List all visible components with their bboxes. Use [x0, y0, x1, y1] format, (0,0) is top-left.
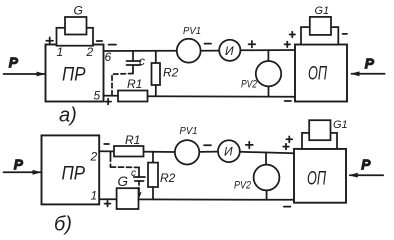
svg-text:б): б) — [54, 214, 72, 236]
generator G1 pedestal (circuit a) — [301, 27, 338, 44]
svg-text:G1: G1 — [333, 119, 348, 131]
svg-text:R1: R1 — [127, 77, 142, 91]
generator G box in series (circuit б) — [117, 174, 139, 209]
converter box ПР (circuit б) — [42, 135, 100, 204]
voltmeter PV2 (circuit a) — [241, 50, 281, 96]
svg-text:R2: R2 — [163, 66, 179, 80]
minus mark bottom before ОП (б) — [284, 206, 291, 208]
wire pin2 to PV1 (top wire б) — [99, 150, 175, 153]
wire PV1 to И (a) — [201, 50, 220, 52]
wire И to ОП (б) — [240, 152, 294, 153]
minus terminal of G1 (a) — [343, 33, 347, 35]
wire G box to ОП (bottom wire б) — [139, 198, 295, 200]
minus mark at pin2 (б) — [104, 143, 109, 145]
svg-text:PV2: PV2 — [234, 180, 251, 192]
arrow P input right (circuit б) — [349, 157, 383, 178]
svg-text:1: 1 — [57, 45, 64, 59]
generator G pedestal (circuit a) — [57, 28, 94, 46]
svg-text:G: G — [74, 4, 83, 18]
amplifier box ОП (circuit б) — [294, 149, 346, 203]
plus mark before ОП (a) — [285, 42, 290, 48]
minus mark bottom before ОП (a) — [285, 100, 291, 102]
generator G1 box (circuit a) — [310, 17, 331, 35]
plus mark before ОП upper (б) — [286, 136, 292, 142]
arrow P input left (circuit б) — [4, 157, 42, 175]
svg-text:P: P — [362, 157, 371, 172]
svg-text:PV1: PV1 — [180, 125, 198, 137]
minus terminal of G (a) — [97, 40, 103, 42]
resistor R2 (circuit б) — [148, 152, 176, 200]
wire PV1 to И (б) — [199, 151, 218, 153]
indicator И (circuit a) — [219, 40, 240, 61]
svg-text:ОП: ОП — [308, 63, 327, 84]
capacitor C (circuit a) — [127, 51, 146, 74]
minus mark PV1-И (б) — [204, 144, 211, 146]
plus mark after И (a) — [249, 41, 256, 47]
svg-text:c: c — [139, 54, 145, 68]
svg-text:а): а) — [59, 105, 77, 127]
plus mark after И (б) — [246, 142, 253, 149]
minus mark at node 6 (a) — [109, 44, 117, 46]
plus mark before ОП lower (б) — [283, 144, 289, 150]
svg-text:1: 1 — [91, 189, 98, 203]
minus mark PV1-И (a) — [205, 43, 212, 45]
svg-text:P: P — [9, 55, 18, 70]
indicator И (circuit б) — [218, 140, 240, 162]
wire pin1 to G box (bottom wire б) — [99, 198, 116, 200]
wire R1 to ОП (bottom wire a) — [148, 95, 296, 98]
svg-text:R1: R1 — [125, 133, 140, 147]
wire pin5 to R1 (bottom wire a) — [104, 95, 119, 97]
svg-text:P: P — [14, 157, 23, 172]
resistor R1 (circuit б) — [114, 133, 144, 157]
amplifier box ОП (circuit a) — [295, 45, 347, 102]
svg-text:ПР: ПР — [62, 164, 86, 185]
arrow P input right (circuit a) — [351, 56, 385, 76]
resistor R1 (circuit a) — [118, 77, 148, 102]
converter box ПР (circuit a) — [46, 45, 104, 102]
generator G box (circuit a) — [65, 17, 87, 35]
dashed link from node 2 to capacitor (б) — [111, 151, 140, 167]
svg-text:PV2: PV2 — [241, 79, 257, 91]
svg-text:И: И — [225, 44, 234, 58]
svg-text:5: 5 — [94, 89, 101, 103]
svg-text:G: G — [118, 174, 129, 189]
svg-text:2: 2 — [86, 45, 94, 59]
voltmeter PV1 (circuit б) — [175, 125, 199, 165]
generator G1 pedestal (circuit б) — [302, 133, 337, 149]
plus mark at node 5 (a) — [105, 99, 111, 105]
plus terminal of G (a) — [46, 37, 53, 44]
svg-text:6: 6 — [105, 50, 112, 64]
generator G1 box (circuit б) — [309, 120, 330, 140]
svg-text:c: c — [131, 168, 136, 179]
capacitor C (circuit б) — [131, 167, 145, 181]
wire pin6 to PV1 (top wire a) — [104, 50, 177, 52]
svg-text:P: P — [365, 56, 374, 71]
svg-text:R2: R2 — [160, 171, 176, 185]
resistor R2 (circuit a) — [152, 51, 179, 96]
svg-text:ОП: ОП — [307, 169, 326, 190]
dashed link C to node 5 (a) — [112, 74, 133, 96]
voltmeter PV2 (circuit б) — [234, 153, 279, 200]
plus mark at pin1 (б) — [105, 201, 111, 207]
svg-text:PV1: PV1 — [183, 25, 201, 37]
svg-text:И: И — [224, 145, 233, 159]
svg-text:ПР: ПР — [62, 65, 86, 86]
svg-text:G1: G1 — [315, 5, 330, 17]
plus terminal of G1 (a) — [290, 32, 295, 38]
svg-text:2: 2 — [90, 150, 98, 164]
wire И to ОП (a) — [240, 49, 295, 51]
dashed arrow C to bottom wire (б) — [137, 181, 142, 199]
arrow P input left (circuit a) — [4, 55, 46, 76]
voltmeter PV1 (circuit a) — [177, 25, 201, 63]
